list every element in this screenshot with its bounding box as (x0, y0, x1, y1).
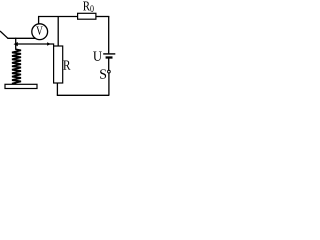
arrowhead pointing left at spring stub (14, 42, 18, 46)
wire: stub below R (56, 83, 58, 96)
resistor R0 box (78, 13, 96, 19)
resistor R box (54, 46, 63, 83)
spring (coil) on plate (12, 49, 21, 84)
wire: stub down to spring top (15, 38, 17, 50)
label S (100, 69, 106, 78)
arrowhead pointing right at R (47, 42, 51, 45)
plate under spring (5, 84, 37, 88)
wire: diagonal lead from left edge (0, 31, 8, 38)
voltmeter label V (36, 27, 43, 35)
wire: horizontal to voltmeter bottom (7, 37, 40, 39)
label U (93, 52, 102, 61)
wire: top wire right of R0 (96, 16, 110, 18)
wire: vertical feed down to R (57, 16, 59, 47)
switch S contact circle (108, 70, 111, 73)
wire: slider wire to R (16, 44, 54, 46)
label R0 (83, 2, 94, 12)
voltmeter top stub (38, 17, 40, 25)
label R (63, 61, 70, 70)
wire: top wire left of R0 (38, 16, 78, 18)
voltmeter V1 circle (32, 24, 48, 40)
wire: battery to switch (108, 58, 110, 70)
wire: right side vertical down to battery (108, 16, 110, 53)
wire: switch to bottom wire (108, 73, 110, 95)
battery U: long plate (103, 53, 115, 55)
wire: bottom wire (57, 94, 110, 96)
battery U: short thick plate (106, 56, 113, 58)
